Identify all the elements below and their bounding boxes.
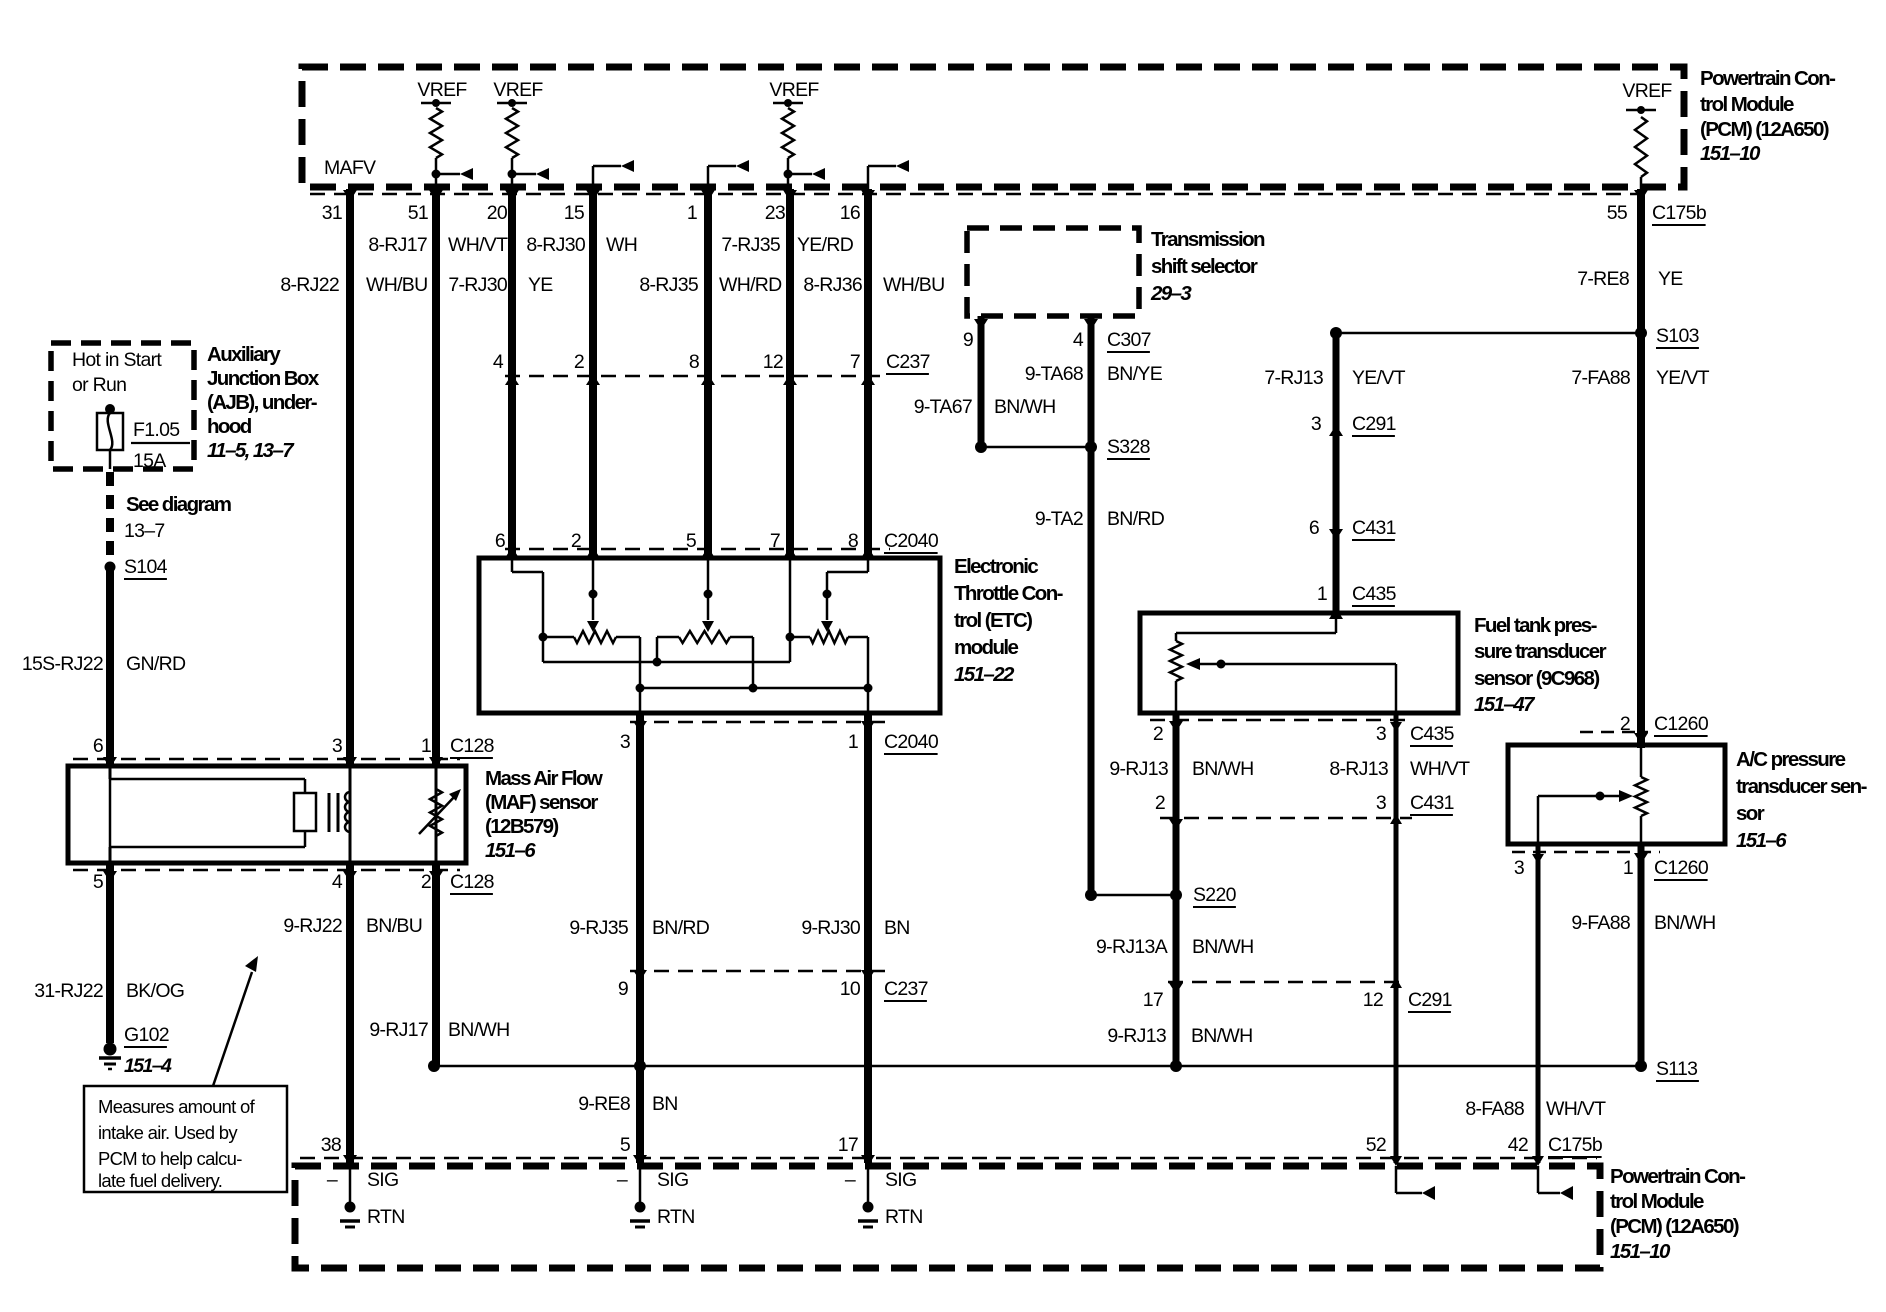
svg-text:WH/VT: WH/VT — [1546, 1098, 1606, 1120]
ETC pot2 wiper arrow from pin5 — [702, 558, 714, 632]
bottom PCM connector dashed line C175b — [300, 1157, 1597, 1160]
svg-text:17: 17 — [838, 1134, 858, 1156]
svg-text:PCM to help calcu-: PCM to help calcu- — [98, 1148, 242, 1169]
svg-text:Powertrain Con-: Powertrain Con- — [1610, 1165, 1745, 1188]
svg-text:(PCM) (12A650): (PCM) (12A650) — [1700, 118, 1829, 141]
svg-text:6: 6 — [1309, 517, 1319, 539]
svg-text:RTN: RTN — [885, 1206, 923, 1228]
svg-text:WH/RD: WH/RD — [719, 274, 782, 296]
svg-text:Hot in Start: Hot in Start — [72, 349, 162, 371]
svg-text:3: 3 — [1311, 413, 1321, 435]
connector C291 dashed line (lower) — [1168, 981, 1400, 984]
svg-text:9-RE8: 9-RE8 — [578, 1093, 630, 1115]
svg-text:C435: C435 — [1352, 583, 1397, 605]
svg-text:8-RJ36: 8-RJ36 — [803, 274, 862, 296]
svg-text:38: 38 — [321, 1134, 341, 1156]
svg-text:YE: YE — [1658, 268, 1683, 290]
connector arrow at C2040 x=790 — [783, 547, 797, 558]
connector C237 (lower) dashed line — [630, 970, 890, 973]
svg-text:C2040: C2040 — [884, 731, 939, 753]
splice S328 — [975, 441, 1097, 453]
svg-text:8-FA88: 8-FA88 — [1465, 1098, 1524, 1120]
connector C128 (upper) dashed line — [73, 758, 460, 761]
C431 pin labels — [1155, 792, 1454, 815]
svg-text:151–10: 151–10 — [1700, 142, 1761, 165]
svg-text:Fuel tank pres-: Fuel tank pres- — [1474, 614, 1597, 637]
connector C2040 (lower) dashed line — [630, 721, 890, 724]
svg-text:11–5, 13–7: 11–5, 13–7 — [207, 439, 295, 462]
svg-text:3: 3 — [332, 735, 342, 757]
wire 9-TA68 BN/YE (selector pin 4) — [1084, 316, 1098, 895]
svg-text:7-RE8: 7-RE8 — [1577, 268, 1629, 290]
labels 9-FA88 BN/WH — [1571, 912, 1715, 934]
ETC signal-return bus to pins 3 and 1 — [640, 688, 868, 713]
PCM internal connection arrow above pin at x=593 — [593, 160, 634, 203]
svg-text:9-RJ35: 9-RJ35 — [569, 917, 629, 939]
svg-text:51: 51 — [408, 202, 428, 224]
svg-text:5: 5 — [620, 1134, 631, 1156]
svg-text:shift selector: shift selector — [1151, 255, 1258, 278]
ETC potentiometer 1 (zigzag) — [543, 631, 645, 693]
PCM internal connection arrow above pin at x=708 — [708, 160, 749, 203]
svg-text:9-TA2: 9-TA2 — [1035, 508, 1083, 530]
wire 8-RJ13 WH/VT (fuel pin3) — [1394, 713, 1399, 1163]
svg-text:4: 4 — [493, 351, 504, 373]
svg-text:BN/RD: BN/RD — [652, 917, 710, 939]
svg-text:(PCM) (12A650): (PCM) (12A650) — [1610, 1215, 1739, 1238]
svg-text:2: 2 — [1620, 713, 1630, 735]
svg-text:BN: BN — [884, 917, 910, 939]
svg-text:SIG: SIG — [885, 1169, 917, 1191]
svg-text:8-RJ17: 8-RJ17 — [368, 234, 427, 256]
in-line connector C431 pin6 — [1309, 517, 1396, 540]
svg-text:7-RJ13: 7-RJ13 — [1264, 367, 1323, 389]
bottom PCM pin labels — [321, 1134, 1603, 1157]
wire 8-RJ35 WH/RD pin1 — [704, 189, 712, 558]
label F1.05 / 15A — [131, 419, 190, 472]
svg-text:RTN: RTN — [657, 1206, 695, 1228]
PCM SIG RTN ground at pin wire x=350 — [327, 1155, 405, 1228]
fuel sensor wiper — [1186, 658, 1396, 713]
svg-text:5: 5 — [93, 871, 104, 893]
svg-text:C175b: C175b — [1652, 202, 1707, 224]
svg-text:6: 6 — [93, 735, 103, 757]
connector arrow at C237 x=790 — [783, 374, 797, 385]
svg-text:See diagram: See diagram — [126, 493, 231, 516]
svg-text:9-RJ13A: 9-RJ13A — [1096, 936, 1168, 958]
svg-text:8: 8 — [848, 530, 858, 552]
svg-text:10: 10 — [840, 978, 861, 1000]
svg-text:late fuel delivery.: late fuel delivery. — [98, 1170, 222, 1191]
labels 9-RE8 BN — [578, 1093, 677, 1115]
svg-text:BN/BU: BN/BU — [366, 915, 422, 937]
MAF variable resistor on wire 1-2 — [419, 766, 461, 863]
svg-text:YE/VT: YE/VT — [1352, 367, 1406, 389]
svg-text:(MAF) sensor: (MAF) sensor — [485, 791, 598, 814]
svg-text:Auxiliary: Auxiliary — [207, 343, 281, 366]
svg-text:S328: S328 — [1107, 436, 1150, 458]
ETC internal: pin6 feed to TP pot left terminal — [512, 558, 548, 642]
svg-text:151–10: 151–10 — [1610, 1240, 1671, 1263]
wire 31-RJ22 BK/OG to G102 — [106, 863, 114, 1043]
svg-text:12: 12 — [763, 351, 783, 373]
svg-text:C237: C237 — [884, 978, 928, 1000]
svg-text:23: 23 — [765, 202, 785, 224]
connector arrow at C237 x=708 — [701, 374, 715, 385]
svg-text:2: 2 — [574, 351, 584, 373]
svg-text:9-TA67: 9-TA67 — [914, 396, 972, 418]
C128 lower pin labels — [93, 871, 494, 894]
in-line connector C291 pin3 — [1311, 413, 1396, 436]
svg-text:9-FA88: 9-FA88 — [1571, 912, 1630, 934]
ETC pot3 wiper arrow fed from pin8 — [821, 558, 868, 632]
annotation box: Measures amount of intake air — [84, 1086, 287, 1192]
labels 8-FA88 WH/VT — [1465, 1098, 1606, 1120]
Fuel tank pressure transducer sensor box — [1140, 613, 1458, 713]
A/C sensor internal resistor — [1634, 733, 1648, 844]
C2040 upper pin labels — [495, 530, 939, 553]
svg-text:F1.05: F1.05 — [133, 419, 180, 441]
A/C pressure transducer sensor box — [1508, 745, 1725, 844]
svg-text:Mass Air Flow: Mass Air Flow — [485, 767, 603, 790]
svg-text:9: 9 — [963, 329, 973, 351]
svg-text:RTN: RTN — [367, 1206, 405, 1228]
C1260 top pin labels — [1620, 713, 1709, 736]
labels 9-RJ13A BN/WH — [1096, 936, 1253, 958]
svg-text:1: 1 — [848, 731, 858, 753]
svg-text:9-RJ13: 9-RJ13 — [1107, 1025, 1166, 1047]
svg-text:C291: C291 — [1352, 413, 1396, 435]
wire name/color labels below top connector — [280, 234, 944, 296]
C2040 lower pin labels — [620, 731, 939, 754]
ETC low-reference bus (pin7) — [543, 558, 790, 667]
svg-text:WH/BU: WH/BU — [883, 274, 945, 296]
labels 9-TA2 BN/RD — [1035, 508, 1165, 530]
svg-text:VREF: VREF — [493, 79, 543, 101]
svg-text:2: 2 — [421, 871, 431, 893]
connector arrow at C2040 x=593 — [586, 547, 600, 558]
svg-text:BN: BN — [652, 1093, 678, 1115]
svg-text:1: 1 — [421, 735, 431, 757]
svg-text:VREF: VREF — [1622, 80, 1672, 102]
svg-text:MAFV: MAFV — [324, 157, 376, 179]
label: Powertrain Control Module (PCM) top right — [1700, 67, 1835, 165]
svg-text:1: 1 — [687, 202, 697, 224]
C237 upper pin labels — [493, 351, 930, 374]
svg-text:13–7: 13–7 — [124, 520, 165, 542]
label: Fuel tank pressure transducer sensor (9C968) — [1474, 614, 1607, 716]
label: Transmission shift selector 29-3 — [1150, 228, 1265, 305]
svg-text:151–22: 151–22 — [954, 663, 1015, 686]
svg-text:module: module — [954, 636, 1018, 659]
label: A/C pressure transducer sensor — [1736, 748, 1867, 852]
svg-text:C128: C128 — [450, 871, 494, 893]
wire 7-RJ35 WH/RD pin23 — [786, 189, 794, 558]
wire 7-RJ30 YE pin20 — [508, 189, 516, 558]
MAF hot-wire element loop — [110, 766, 316, 866]
svg-text:151–4: 151–4 — [124, 1055, 172, 1077]
C435 pin labels — [1153, 723, 1455, 746]
svg-text:BN/WH: BN/WH — [1191, 1025, 1253, 1047]
VREF pull-up resistor at x=1641 — [1622, 80, 1672, 194]
label: Powertrain Control Module (PCM) bottom right — [1610, 1165, 1745, 1263]
svg-text:7: 7 — [850, 351, 860, 373]
svg-text:8-RJ22: 8-RJ22 — [280, 274, 339, 296]
annotation arrow to MAF — [213, 956, 258, 1086]
Transmission shift selector dashed box — [967, 228, 1139, 316]
fuse F1.05 15A — [97, 404, 123, 469]
wire 8-FA88 WH/VT (A/C pin3) — [1536, 844, 1541, 1163]
svg-text:sensor (9C968): sensor (9C968) — [1474, 667, 1599, 690]
svg-text:YE/RD: YE/RD — [797, 234, 854, 256]
svg-text:BK/OG: BK/OG — [126, 980, 184, 1002]
svg-text:Measures amount of: Measures amount of — [98, 1096, 256, 1117]
svg-text:SIG: SIG — [657, 1169, 689, 1191]
svg-text:transducer sen-: transducer sen- — [1736, 775, 1867, 798]
svg-text:–: – — [617, 1169, 628, 1191]
svg-text:C431: C431 — [1352, 517, 1396, 539]
labels 9-TA68 BN/YE / 9-TA67 BN/WH — [914, 363, 1163, 418]
C291 lower pin labels — [1143, 989, 1452, 1012]
svg-text:16: 16 — [840, 202, 860, 224]
svg-text:BN/WH: BN/WH — [1192, 936, 1254, 958]
svg-text:WH/VT: WH/VT — [448, 234, 508, 256]
A/C sensor wiper — [1538, 790, 1633, 844]
svg-text:trol (ETC): trol (ETC) — [954, 609, 1032, 632]
Electronic Throttle Control (ETC) module box — [479, 558, 940, 713]
svg-text:C307: C307 — [1107, 329, 1151, 351]
Powertrain Control Module bottom dashed box — [295, 1166, 1600, 1268]
PCM top module box (Powertrain Control Module) — [302, 67, 1684, 187]
svg-text:hood: hood — [207, 415, 252, 438]
label: Auxiliary Junction Box (AJB), underhood — [207, 343, 320, 462]
svg-text:SIG: SIG — [367, 1169, 399, 1191]
svg-text:20: 20 — [487, 202, 508, 224]
label: See diagram 13-7 — [124, 493, 231, 542]
connector C2040 (upper) dashed line — [505, 548, 890, 551]
label: Mass Air Flow (MAF) sensor — [485, 767, 603, 862]
svg-text:WH/BU: WH/BU — [366, 274, 428, 296]
svg-text:S220: S220 — [1193, 884, 1237, 906]
labels 9-RJ35 BN/RD and 9-RJ30 BN — [569, 917, 909, 939]
svg-text:2: 2 — [1155, 792, 1165, 814]
svg-text:9-TA68: 9-TA68 — [1025, 363, 1083, 385]
wire 8-RJ22 WH/BU pin31 MAFV — [346, 189, 354, 768]
fuel sensor internal resistor — [1170, 613, 1336, 713]
svg-text:BN/RD: BN/RD — [1107, 508, 1165, 530]
svg-text:4: 4 — [332, 871, 343, 893]
svg-text:Powertrain Con-: Powertrain Con- — [1700, 67, 1835, 90]
svg-text:8-RJ13: 8-RJ13 — [1329, 758, 1388, 780]
C128 upper pin labels — [93, 735, 494, 758]
connector arrow at C237 x=868 — [861, 374, 875, 385]
svg-text:7-RJ30: 7-RJ30 — [448, 274, 508, 296]
connector C128 (lower) dashed line — [73, 869, 460, 872]
labels 9-RJ13 BN/WH / 8-RJ13 WH/VT — [1109, 758, 1470, 780]
label: Electronic Throttle Control (ETC) module — [954, 555, 1063, 686]
in-line connector C435 pin1 — [1317, 583, 1397, 619]
splice S220 (9-TA2 joins 9-RJ13A) — [1085, 889, 1182, 901]
svg-text:7-RJ35: 7-RJ35 — [721, 234, 781, 256]
svg-text:7: 7 — [770, 530, 780, 552]
connector C431 dashed line — [1160, 817, 1412, 820]
svg-text:VREF: VREF — [417, 79, 467, 101]
svg-text:31-RJ22: 31-RJ22 — [34, 980, 103, 1002]
connector arrow at C2040 x=868 — [861, 547, 875, 558]
svg-text:BN/WH: BN/WH — [1654, 912, 1716, 934]
svg-text:Throttle Con-: Throttle Con- — [954, 582, 1063, 605]
svg-text:BN/YE: BN/YE — [1107, 363, 1163, 385]
connector arrow at C237 x=593 — [586, 374, 600, 385]
svg-text:C1260: C1260 — [1654, 713, 1709, 735]
wire 8-RJ36 WH/BU pin16 — [864, 189, 872, 558]
svg-text:trol Module: trol Module — [1610, 1190, 1704, 1213]
svg-text:Electronic: Electronic — [954, 555, 1038, 578]
wire 9-RJ22 BN/BU (MAF pin4) — [346, 863, 354, 1163]
svg-text:31: 31 — [322, 202, 342, 224]
svg-text:Junction Box: Junction Box — [207, 367, 320, 390]
svg-text:BN/WH: BN/WH — [1192, 758, 1254, 780]
ETC potentiometer 2 (zigzag) — [657, 631, 758, 693]
labels 7-RE8 YE on pin55 wire — [1577, 268, 1683, 290]
svg-text:8-RJ35: 8-RJ35 — [639, 274, 699, 296]
svg-text:3: 3 — [1376, 792, 1386, 814]
svg-text:or Run: or Run — [72, 374, 126, 396]
svg-text:42: 42 — [1508, 1134, 1528, 1156]
svg-text:55: 55 — [1607, 202, 1628, 224]
svg-text:intake air. Used by: intake air. Used by — [98, 1122, 238, 1143]
wire 8-RJ17 WH/BU pin51 — [432, 189, 440, 768]
MAF coil on signal wire — [345, 766, 350, 863]
wire 9-RJ17 BN/WH (MAF pin2) — [432, 863, 440, 1066]
VREF pull-up resistor at x=436 — [417, 79, 473, 194]
svg-text:WH/VT: WH/VT — [1410, 758, 1470, 780]
PCM internal stub arrow pin52 — [1390, 1156, 1435, 1200]
svg-text:BN/WH: BN/WH — [994, 396, 1056, 418]
connector C1260 dashes above A/C sensor — [1580, 731, 1648, 734]
svg-text:12: 12 — [1363, 989, 1383, 1011]
splice S113 — [1635, 1060, 1647, 1072]
ETC potentiometer 3 (zigzag) — [786, 631, 873, 693]
connector C1260 dashed line below A/C sensor — [1512, 851, 1660, 854]
wire 15S-RJ22 GN/RD — [106, 567, 114, 768]
svg-text:C2040: C2040 — [884, 530, 939, 552]
wire 7-RJ13 YE/VT — [1333, 333, 1340, 613]
svg-text:9-RJ13: 9-RJ13 — [1109, 758, 1168, 780]
wire 9-TA67 BN/WH (selector pin 9) — [974, 316, 988, 447]
svg-text:YE/VT: YE/VT — [1656, 367, 1710, 389]
svg-text:C431: C431 — [1410, 792, 1454, 814]
svg-text:G102: G102 — [124, 1024, 169, 1046]
svg-text:3: 3 — [620, 731, 630, 753]
svg-text:151–6: 151–6 — [1736, 829, 1787, 852]
svg-text:52: 52 — [1366, 1134, 1386, 1156]
MAF transformer core bars — [329, 793, 338, 832]
svg-text:C291: C291 — [1408, 989, 1452, 1011]
svg-text:3: 3 — [1514, 857, 1524, 879]
svg-text:YE: YE — [528, 274, 553, 296]
svg-text:151–6: 151–6 — [485, 839, 536, 862]
svg-text:sure transducer: sure transducer — [1474, 640, 1607, 663]
dashed wire below fuse (see diagram) — [106, 472, 114, 561]
svg-text:7-FA88: 7-FA88 — [1571, 367, 1630, 389]
junction at 9-RJ13 wire — [1170, 1060, 1182, 1072]
svg-text:–: – — [845, 1169, 856, 1191]
svg-text:(AJB), under-: (AJB), under- — [207, 391, 317, 414]
svg-text:A/C pressure: A/C pressure — [1736, 748, 1846, 771]
labels 9-RJ13 BN/WH (below C291) — [1107, 1025, 1252, 1047]
wire 8-RJ30 WH pin15 — [589, 189, 597, 558]
svg-text:29–3: 29–3 — [1150, 282, 1192, 305]
svg-text:C435: C435 — [1410, 723, 1455, 745]
splice S104 — [105, 562, 116, 573]
wire 9-FA88 BN/WH (A/C pin1) — [1638, 844, 1645, 1066]
svg-text:8: 8 — [689, 351, 699, 373]
splice bus wire to S113 (horizontal) — [434, 1065, 1641, 1068]
svg-text:1: 1 — [1623, 857, 1633, 879]
pin numbers of top PCM connector — [322, 202, 1707, 225]
splice S103 and tie line — [1330, 327, 1647, 339]
svg-text:15: 15 — [564, 202, 585, 224]
VREF pull-up resistor at x=788 — [769, 79, 825, 194]
svg-text:BN/WH: BN/WH — [448, 1019, 510, 1041]
svg-text:9-RJ30: 9-RJ30 — [801, 917, 861, 939]
svg-text:–: – — [327, 1169, 338, 1191]
svg-text:sor: sor — [1736, 802, 1765, 825]
wire 9-RJ30 BN (ETC pin1) — [864, 713, 872, 1163]
svg-text:trol Module: trol Module — [1700, 93, 1794, 116]
svg-text:GN/RD: GN/RD — [126, 653, 186, 675]
connector arrow at C2040 x=708 — [701, 547, 715, 558]
PCM SIG RTN ground at pin wire x=868 — [845, 1155, 923, 1228]
PCM internal stub arrow pin42 — [1532, 1156, 1573, 1200]
wire 9-RJ35 BN/RD (ETC pin3) — [636, 713, 644, 1163]
svg-text:S113: S113 — [1656, 1058, 1697, 1080]
PCM top connector dashed line C175b — [310, 193, 1652, 196]
svg-text:3: 3 — [1376, 723, 1386, 745]
svg-text:2: 2 — [571, 530, 581, 552]
VREF pull-up resistor at x=512 — [493, 79, 549, 194]
svg-text:15A: 15A — [133, 450, 166, 472]
PCM internal connection arrow above pin at x=868 — [868, 160, 909, 203]
svg-text:17: 17 — [1143, 989, 1163, 1011]
svg-text:4: 4 — [1073, 329, 1084, 351]
svg-text:5: 5 — [686, 530, 697, 552]
svg-text:C1260: C1260 — [1654, 857, 1709, 879]
labels 7-FA88 YE/VT — [1571, 367, 1709, 389]
svg-text:15S-RJ22: 15S-RJ22 — [22, 653, 103, 675]
svg-text:S103: S103 — [1656, 325, 1699, 347]
svg-text:VREF: VREF — [769, 79, 819, 101]
PCM SIG RTN ground at pin wire x=640 — [617, 1155, 695, 1228]
svg-text:C175b: C175b — [1548, 1134, 1603, 1156]
connector arrow at C237 x=512 — [505, 374, 519, 385]
svg-text:Transmission: Transmission — [1151, 228, 1265, 251]
Auxiliary Junction Box dashed enclosure (Hot in Start or Run) — [51, 343, 194, 469]
connector C435 dashed line below fuel sensor — [1150, 719, 1412, 722]
connector C237 (upper) dashed line — [505, 375, 880, 378]
Mass Air Flow (MAF) sensor box — [68, 766, 466, 863]
C307 pin labels — [963, 329, 1151, 352]
svg-text:(12B579): (12B579) — [485, 815, 558, 838]
svg-text:9: 9 — [618, 978, 628, 1000]
junction at 9-RE8 wire — [634, 1060, 646, 1072]
wire 9-RJ13 BN/WH (fuel pin2) — [1173, 713, 1180, 1066]
svg-text:2: 2 — [1153, 723, 1163, 745]
svg-text:9-RJ17: 9-RJ17 — [369, 1019, 428, 1041]
C237 lower pin labels — [618, 978, 928, 1001]
svg-text:C237: C237 — [886, 351, 930, 373]
